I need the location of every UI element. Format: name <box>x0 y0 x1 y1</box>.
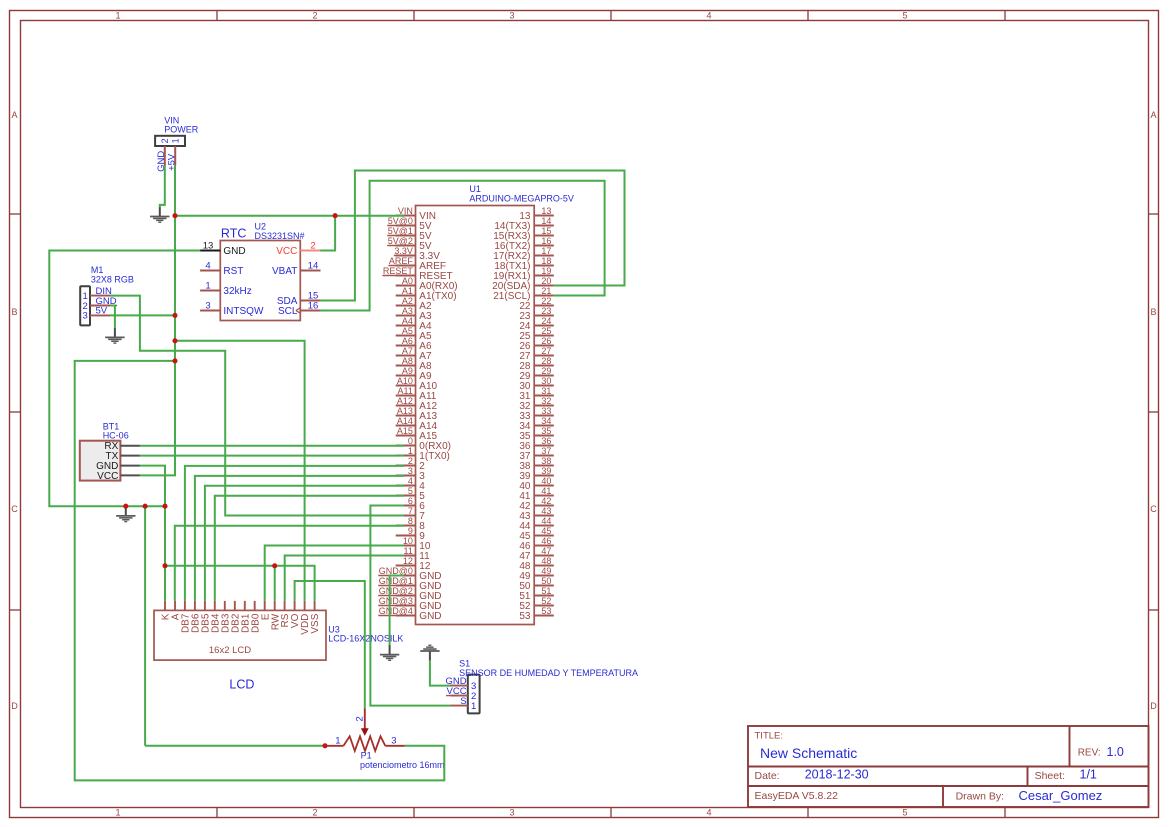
svg-text:22: 22 <box>541 296 551 306</box>
U1 left pin 9 stub <box>396 535 416 537</box>
svg-text:10: 10 <box>403 536 413 546</box>
svg-text:B: B <box>1150 307 1156 317</box>
U1 right pin 39 stub <box>534 475 554 477</box>
frame row letters right <box>1150 110 1157 711</box>
connector VIN POWER <box>155 136 185 146</box>
svg-text:GND@0: GND@0 <box>379 566 413 576</box>
svg-text:A14: A14 <box>397 416 413 426</box>
svg-text:Date:: Date: <box>755 770 780 782</box>
junction ground symbol on GND rail <box>123 504 128 509</box>
svg-text:Drawn By:: Drawn By: <box>956 791 1004 803</box>
svg-text:POWER: POWER <box>164 125 199 135</box>
junction M1 5V on +5V column <box>172 313 177 318</box>
wire U2 VCC to VIN wire <box>320 216 335 251</box>
U1 left pin A10 stub <box>396 385 416 387</box>
wire M1 5V to +5V column <box>110 314 175 316</box>
U2 SCL clock mark <box>296 307 301 313</box>
U3 pin E stub <box>264 601 266 611</box>
junction LCD VDD branch on +5V column <box>172 338 177 343</box>
U1 left pin VIN stub <box>396 215 416 217</box>
U3 pin DB1 stub <box>244 601 246 611</box>
U2 pin 13 GND stub <box>200 250 220 252</box>
U1 left pin 5V@2 stub <box>396 245 416 247</box>
U1 left pin 12 stub <box>396 565 416 567</box>
svg-text:5V@2: 5V@2 <box>388 236 413 246</box>
U1 right pin 28 stub <box>534 365 554 367</box>
ground symbol at VIN POWER <box>150 207 169 222</box>
U1 left pin A3 stub <box>396 315 416 317</box>
wire S1 GND to ground symbol <box>430 660 451 685</box>
svg-text:GND@4: GND@4 <box>379 606 413 616</box>
wire BT1 TX to U1 pin 1 <box>140 455 404 457</box>
svg-text:14: 14 <box>541 216 551 226</box>
svg-text:4: 4 <box>205 260 210 271</box>
svg-text:U2: U2 <box>255 222 267 232</box>
svg-text:A3: A3 <box>402 306 413 316</box>
junction VCC drop on VIN wire <box>333 213 338 218</box>
wire LCD DB6 to U1 pin 3 <box>195 476 404 601</box>
U1 net label 5V@2 underline <box>387 245 415 247</box>
U1 right pin 30 stub <box>534 385 554 387</box>
svg-text:44: 44 <box>541 516 551 526</box>
svg-text:41: 41 <box>541 486 551 496</box>
U1 right pin 15 stub <box>534 235 554 237</box>
bluetooth module BT1 HC-06 <box>80 441 121 481</box>
U1 right pin 18 stub <box>534 265 554 267</box>
U1 right pin 40 stub <box>534 485 554 487</box>
svg-text:33: 33 <box>541 406 551 416</box>
wire LCD E to U1 pin 10 <box>265 546 404 601</box>
U1 right pin 43 stub <box>534 515 554 517</box>
ground symbol at S1 (inverted) <box>420 645 439 660</box>
svg-text:30: 30 <box>541 376 551 386</box>
S1 net label VCC underline <box>446 695 468 697</box>
svg-text:37: 37 <box>541 446 551 456</box>
svg-text:2: 2 <box>355 716 366 721</box>
svg-text:VBAT: VBAT <box>272 266 297 277</box>
svg-text:3: 3 <box>509 807 514 817</box>
BT1 pin GND stub <box>120 465 139 467</box>
U1 right pin 48 stub <box>534 565 554 567</box>
U1 left pin GND@1 stub <box>396 585 416 587</box>
wire LCD VO to P1 wiper <box>295 581 365 709</box>
U2 pin 16 SCL stub <box>300 310 320 312</box>
svg-text:1: 1 <box>335 736 340 747</box>
svg-text:2: 2 <box>312 10 317 20</box>
svg-text:32: 32 <box>541 396 551 406</box>
U1 left pin 0 stub <box>396 445 416 447</box>
svg-text:GND: GND <box>419 611 441 622</box>
U1 left pin 4 stub <box>396 485 416 487</box>
svg-text:GND@2: GND@2 <box>379 586 413 596</box>
svg-text:5: 5 <box>902 807 907 817</box>
U1 right pin 13 stub <box>534 215 554 217</box>
svg-text:3: 3 <box>205 300 210 311</box>
svg-text:25: 25 <box>541 326 551 336</box>
svg-text:18: 18 <box>541 256 551 266</box>
svg-text:1/1: 1/1 <box>1080 768 1097 782</box>
svg-text:17: 17 <box>541 246 551 256</box>
wire LCD RW to GND rail <box>274 566 276 601</box>
U1 right pin 38 stub <box>534 465 554 467</box>
U1 left pin A0 stub <box>396 285 416 287</box>
U3 pin VDD stub <box>304 601 306 611</box>
wire LCD DB5 to U1 pin 4 <box>205 486 404 601</box>
RTC chip U2 DS3231SN# <box>220 241 300 321</box>
P1 pin 3 stub <box>385 745 404 747</box>
wire U1 GND@0 to ground symbol <box>390 576 404 646</box>
U1 right pin 17 stub <box>534 255 554 257</box>
wire VIN POWER GND to ground symbol <box>160 166 165 208</box>
U3 pin RS stub <box>284 601 286 611</box>
wire LCD DB4 to U1 pin 5 <box>215 496 404 601</box>
U3 pin VSS stub <box>314 601 316 611</box>
svg-text:DS3231SN#: DS3231SN# <box>255 231 305 241</box>
svg-text:3: 3 <box>509 10 514 20</box>
svg-text:RESET: RESET <box>383 266 414 276</box>
U1 right pin 14 stub <box>534 225 554 227</box>
svg-text:35: 35 <box>541 426 551 436</box>
P1 pin 2 wiper stub <box>364 709 366 730</box>
svg-text:28: 28 <box>541 356 551 366</box>
M1 net label GND underline <box>96 305 118 307</box>
wire LCD RS to U1 pin 11 <box>285 556 404 601</box>
wire LCD A to U1 pin 8 <box>175 526 404 601</box>
U1 right pin 41 stub <box>534 495 554 497</box>
svg-text:A11: A11 <box>398 386 413 396</box>
U1 left pin A5 stub <box>396 335 416 337</box>
U1 right pin 42 stub <box>534 505 554 507</box>
S1 pin GND stub <box>450 685 467 687</box>
U1 left pin 2 stub <box>396 465 416 467</box>
svg-text:40: 40 <box>541 476 551 486</box>
svg-text:REV:: REV: <box>1078 748 1101 759</box>
svg-text:24: 24 <box>541 316 551 326</box>
svg-text:New Schematic: New Schematic <box>760 745 857 761</box>
U1 left pin A14 stub <box>396 425 416 427</box>
U1 left pin 6 stub <box>396 505 416 507</box>
M1 pin 5V stub <box>90 314 110 316</box>
svg-text:3: 3 <box>391 736 396 747</box>
U1 left pin GND@3 stub <box>396 605 416 607</box>
P1 pin 1 stub <box>325 745 344 747</box>
svg-text:48: 48 <box>541 556 551 566</box>
U1 right pin 52 stub <box>534 605 554 607</box>
U1 right pin 19 stub <box>534 275 554 277</box>
svg-text:12: 12 <box>403 556 413 566</box>
S1 pin VCC stub <box>450 695 467 697</box>
U1 right pin 27 stub <box>534 355 554 357</box>
svg-text:20: 20 <box>541 276 551 286</box>
M1 net label 5V underline <box>96 314 108 316</box>
svg-text:5V@0: 5V@0 <box>388 216 413 226</box>
M1 net label DIN underline <box>96 295 113 297</box>
svg-text:A8: A8 <box>402 356 413 366</box>
svg-text:16: 16 <box>541 236 551 246</box>
svg-text:A2: A2 <box>402 296 413 306</box>
wire U2 GND to GND rail <box>49 251 200 507</box>
svg-text:TITLE:: TITLE: <box>755 731 784 742</box>
junction LCD RW on lower GND rail <box>272 563 277 568</box>
title block <box>748 726 1149 807</box>
U1 net label GND@4 underline <box>378 615 415 617</box>
svg-text:A: A <box>11 110 17 120</box>
svg-text:2: 2 <box>312 807 317 817</box>
svg-text:31: 31 <box>541 386 551 396</box>
wire GND rail vertical to P1 row <box>144 506 146 746</box>
svg-text:3: 3 <box>82 311 87 322</box>
U1 left pin RESET stub <box>396 275 416 277</box>
svg-text:1: 1 <box>115 807 120 817</box>
U1 left pin 8 stub <box>396 525 416 527</box>
svg-text:GND: GND <box>223 246 245 257</box>
wire GND rail to LCD VSS <box>165 566 315 601</box>
U3 pin A stub <box>174 601 176 611</box>
svg-text:VCC: VCC <box>276 246 297 257</box>
U1 right pin 47 stub <box>534 555 554 557</box>
U1 net label GND@1 underline <box>378 585 415 587</box>
svg-text:A0: A0 <box>402 276 413 286</box>
frame column numbers top <box>115 10 907 20</box>
svg-text:3.3V: 3.3V <box>394 246 413 256</box>
svg-text:2: 2 <box>408 456 413 466</box>
S1 net label S underline <box>460 705 468 707</box>
svg-text:potenciometro 16mm: potenciometro 16mm <box>360 760 445 770</box>
svg-text:1: 1 <box>408 446 413 456</box>
svg-text:4: 4 <box>706 807 711 817</box>
U1 left pin 7 stub <box>396 515 416 517</box>
svg-text:36: 36 <box>541 436 551 446</box>
VIN POWER pin 1 stub <box>174 146 176 166</box>
microcontroller board U1 ARDUINO-MEGAPRO-5V <box>416 206 535 625</box>
svg-text:EasyEDA V5.8.22: EasyEDA V5.8.22 <box>755 790 839 802</box>
LCD display U3 LCD-16X2NOSILK <box>154 610 326 660</box>
svg-text:15: 15 <box>541 226 551 236</box>
svg-text:3: 3 <box>408 466 413 476</box>
U1 left pin A1 stub <box>396 295 416 297</box>
svg-text:4: 4 <box>408 476 413 486</box>
svg-text:14: 14 <box>308 260 319 271</box>
U1 left pin GND@0 stub <box>396 575 416 577</box>
U1 right pin 25 stub <box>534 335 554 337</box>
U1 right pin 46 stub <box>534 545 554 547</box>
svg-text:C: C <box>1150 504 1157 514</box>
svg-text:52: 52 <box>541 596 551 606</box>
U1 left pin A13 stub <box>396 415 416 417</box>
U1 net label RESET underline <box>382 275 415 277</box>
svg-text:P1: P1 <box>361 750 372 760</box>
U1 right pin 50 stub <box>534 585 554 587</box>
U1 left pin 3.3V stub <box>396 255 416 257</box>
wire M1 DIN to U1 pin 7 <box>110 296 404 516</box>
U1 right pin 26 stub <box>534 345 554 347</box>
svg-text:A10: A10 <box>397 376 413 386</box>
svg-text:34: 34 <box>541 416 551 426</box>
U1 left pin 11 stub <box>396 555 416 557</box>
svg-text:U1: U1 <box>469 184 481 194</box>
U2 pin 3 INTSQW stub <box>200 310 220 312</box>
svg-text:D: D <box>11 701 18 711</box>
wire S1 S signal to U1 pin 6 <box>370 506 450 706</box>
VIN POWER pin 2 stub <box>164 146 166 166</box>
svg-text:16: 16 <box>308 301 319 312</box>
svg-text:27: 27 <box>541 346 551 356</box>
svg-text:1: 1 <box>205 280 210 291</box>
U1 right pin 24 stub <box>534 325 554 327</box>
svg-text:INTSQW: INTSQW <box>223 306 264 317</box>
junction P1 pin1 drop on GND rail <box>143 504 148 509</box>
M1 pin DIN stub <box>90 295 110 297</box>
svg-text:6: 6 <box>408 496 413 506</box>
U1 net label AREF underline <box>388 265 415 267</box>
U1 left pin A2 stub <box>396 305 416 307</box>
junction BT1 GND / LCD K on GND rail <box>162 504 167 509</box>
wire +5V branch to LCD VDD <box>175 341 305 601</box>
wire SDA from U2 to U1 pin 20 <box>320 171 624 301</box>
U1 left pin A6 stub <box>396 345 416 347</box>
U1 left pin 5V@1 stub <box>396 235 416 237</box>
U1 right pin 20 stub <box>534 285 554 287</box>
U1 net label GND@3 underline <box>378 605 415 607</box>
svg-text:51: 51 <box>541 586 551 596</box>
S1 pin S stub <box>450 705 467 707</box>
svg-text:45: 45 <box>541 526 551 536</box>
svg-text:RST: RST <box>223 266 243 277</box>
svg-text:19: 19 <box>541 266 551 276</box>
svg-text:GND@1: GND@1 <box>379 576 413 586</box>
wire M1 GND to ground symbol <box>110 306 115 329</box>
wire +5V column from VIN POWER down to BT1 VCC <box>140 166 175 476</box>
wire BT1 RX to U1 pin 0 <box>140 445 404 447</box>
U1 left pin 10 stub <box>396 545 416 547</box>
U1 right pin 37 stub <box>534 455 554 457</box>
U1 right pin 29 stub <box>534 375 554 377</box>
U3 pin DB0 stub <box>254 601 256 611</box>
svg-text:49: 49 <box>541 566 551 576</box>
U1 right pin 33 stub <box>534 415 554 417</box>
U3 pin DB2 stub <box>234 601 236 611</box>
svg-text:VIN: VIN <box>398 206 413 216</box>
potentiometer P1 zigzag body <box>344 736 386 751</box>
svg-text:1: 1 <box>171 138 181 143</box>
svg-text:SENSOR DE HUMEDAD Y TEMPERATUR: SENSOR DE HUMEDAD Y TEMPERATURA <box>459 668 638 678</box>
svg-text:29: 29 <box>541 366 551 376</box>
U3 pin DB3 stub <box>224 601 226 611</box>
svg-text:50: 50 <box>541 576 551 586</box>
svg-text:A13: A13 <box>397 406 413 416</box>
frame column numbers bottom <box>115 807 907 817</box>
U3 pin K stub <box>164 601 166 611</box>
U1 left pin 1 stub <box>396 455 416 457</box>
svg-text:A1: A1 <box>402 286 413 296</box>
wire VIN net from +5V junction to U1 VIN <box>175 215 404 217</box>
frame row letters left <box>11 110 18 711</box>
svg-text:5V@1: 5V@1 <box>388 226 413 236</box>
U2 pin 14 VBAT stub <box>300 270 320 272</box>
svg-text:39: 39 <box>541 466 551 476</box>
svg-text:VSS: VSS <box>310 613 321 633</box>
svg-text:32kHz: 32kHz <box>223 286 251 297</box>
U1 left pin A7 stub <box>396 355 416 357</box>
junction +5V / VIN wire <box>172 213 177 218</box>
U1 right pin 22 stub <box>534 305 554 307</box>
U1 left pin A4 stub <box>396 325 416 327</box>
svg-text:A6: A6 <box>402 336 413 346</box>
svg-text:13: 13 <box>203 240 214 251</box>
U2 pin 15 SDA stub <box>300 300 320 302</box>
svg-text:23: 23 <box>541 306 551 316</box>
svg-text:LCD-16X2NOSILK: LCD-16X2NOSILK <box>328 634 403 644</box>
U1 right pin 34 stub <box>534 425 554 427</box>
svg-text:LCD: LCD <box>229 677 254 691</box>
wire GND rail branch to P1 pin 1 <box>145 745 325 747</box>
svg-text:42: 42 <box>541 496 551 506</box>
U1 right pin 51 stub <box>534 595 554 597</box>
BT1 pin TX stub <box>120 455 139 457</box>
svg-text:1.0: 1.0 <box>1107 745 1124 759</box>
U3 pin RW stub <box>274 601 276 611</box>
svg-text:1: 1 <box>115 10 120 20</box>
ground symbol below U1 GND@0 <box>380 645 399 660</box>
wire SCL from U2 to U1 pin 21 <box>320 181 604 311</box>
U1 left pin A11 stub <box>396 395 416 397</box>
U3 pin VO stub <box>294 601 296 611</box>
U1 left pin GND@4 stub <box>396 615 416 617</box>
svg-text:0: 0 <box>408 436 413 446</box>
svg-text:32X8 RGB: 32X8 RGB <box>91 274 134 284</box>
U1 right pin 49 stub <box>534 575 554 577</box>
svg-text:RTC: RTC <box>221 226 246 240</box>
U1 right pin 16 stub <box>534 245 554 247</box>
U3 pin DB5 stub <box>204 601 206 611</box>
U1 net label 5V@1 underline <box>387 235 415 237</box>
M1 pin GND stub <box>90 305 110 307</box>
U3 pin DB7 stub <box>184 601 186 611</box>
ground symbol at M1 <box>105 328 124 343</box>
svg-text:21: 21 <box>541 286 551 296</box>
svg-text:9: 9 <box>408 526 413 536</box>
svg-text:A12: A12 <box>397 396 413 406</box>
svg-text:43: 43 <box>541 506 551 516</box>
sensor connector S1 <box>468 675 480 714</box>
svg-text:GND@3: GND@3 <box>379 596 413 606</box>
svg-text:A9: A9 <box>402 366 413 376</box>
svg-text:Sheet:: Sheet: <box>1035 770 1065 782</box>
U1 left pin A15 stub <box>396 435 416 437</box>
U1 right pin 32 stub <box>534 405 554 407</box>
junction LCD K on lower GND rail <box>162 563 167 568</box>
U3 pin DB6 stub <box>194 601 196 611</box>
U1 left pin A9 stub <box>396 375 416 377</box>
svg-text:A4: A4 <box>402 316 413 326</box>
U1 right pin 45 stub <box>534 535 554 537</box>
svg-text:VCC: VCC <box>97 471 118 482</box>
svg-text:ARDUINO-MEGAPRO-5V: ARDUINO-MEGAPRO-5V <box>469 194 574 204</box>
svg-text:SCL: SCL <box>278 306 298 317</box>
svg-text:A7: A7 <box>402 346 413 356</box>
U1 right pin 23 stub <box>534 315 554 317</box>
U1 right pin 31 stub <box>534 395 554 397</box>
svg-text:47: 47 <box>541 546 551 556</box>
U1 right pin 35 stub <box>534 435 554 437</box>
svg-text:AREF: AREF <box>389 256 414 266</box>
svg-text:13: 13 <box>541 206 551 216</box>
svg-text:38: 38 <box>541 456 551 466</box>
svg-text:A5: A5 <box>402 326 413 336</box>
BT1 pin RX stub <box>120 445 139 447</box>
ground symbol on GND rail near BT1 <box>116 506 135 521</box>
U1 left pin GND@2 stub <box>396 595 416 597</box>
